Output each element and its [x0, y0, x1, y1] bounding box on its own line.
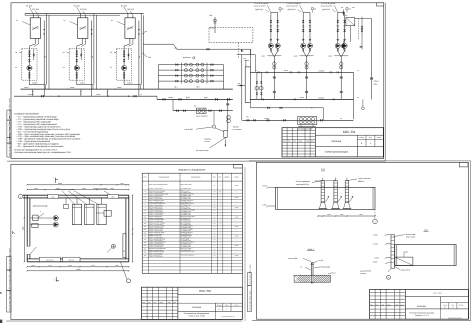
- svg-text:Стадия: Стадия: [217, 305, 222, 307]
- svg-text:Т1: Т1: [43, 56, 46, 58]
- svg-text:см.ТМ: см.ТМ: [235, 216, 238, 218]
- svg-text:Ру=1,6МПа t=95С: Ру=1,6МПа t=95С: [181, 240, 191, 242]
- svg-text:Ø89х3,5: Ø89х3,5: [358, 180, 364, 183]
- svg-text:Ру=1,6МПа t=95С: Ру=1,6МПа t=95С: [181, 217, 191, 219]
- svg-text:в компл. с автоматикой: в компл. с автоматикой: [149, 227, 163, 229]
- svg-text:Листов: Листов: [377, 137, 382, 139]
- svg-text:Т1: Т1: [91, 56, 94, 58]
- svg-text:Ду40: Ду40: [294, 56, 297, 58]
- svg-text:ГОСТ 10704-91 76x3,5: ГОСТ 10704-91 76x3,5: [181, 251, 195, 253]
- svg-text:1: 1: [54, 278, 55, 281]
- svg-text:Ру=1,6МПа t=95С: Ру=1,6МПа t=95С: [181, 195, 191, 197]
- svg-text:в компл. с автоматикой: в компл. с автоматикой: [149, 205, 163, 207]
- svg-text:Ведомость оборудования: Ведомость оборудования: [179, 168, 207, 171]
- svg-text:Т1: Т1: [138, 56, 141, 58]
- svg-text:№док: №док: [387, 304, 391, 306]
- svg-text:К1: К1: [111, 19, 113, 22]
- svg-text:Лист: Лист: [369, 137, 372, 139]
- svg-text:ГВ-1: ГВ-1: [174, 86, 178, 89]
- svg-text:см.ТМ: см.ТМ: [235, 185, 238, 187]
- svg-text:см.ТМ: см.ТМ: [235, 255, 238, 257]
- svg-text:см.ТМ: см.ТМ: [235, 207, 238, 209]
- svg-text:Листов: Листов: [235, 305, 239, 307]
- svg-text:3: 3: [452, 306, 453, 309]
- svg-text:в компл. с автоматикой: в компл. с автоматикой: [149, 224, 163, 226]
- svg-text:в компл. с автоматикой: в компл. с автоматикой: [149, 246, 163, 248]
- svg-text:-0,500: -0,500: [262, 203, 267, 206]
- svg-text:Ру=1,6МПа t=95С: Ру=1,6МПа t=95С: [181, 233, 191, 235]
- svg-text:Ру=1,6МПа t=95С: Ру=1,6МПа t=95С: [181, 208, 191, 210]
- svg-text:Копировал Формат А2: Копировал Формат А2: [222, 316, 235, 318]
- svg-text:Т97 Ø25: Т97 Ø25: [80, 8, 87, 11]
- svg-text:Колонка: Колонка: [332, 140, 342, 143]
- svg-text:в компл. с автоматикой: в компл. с автоматикой: [149, 249, 163, 251]
- svg-text:К1: К1: [15, 66, 17, 69]
- svg-text:Условные обозначения:: Условные обозначения:: [14, 113, 39, 116]
- svg-text:1: 1: [53, 176, 54, 179]
- svg-text:Колонка: Колонка: [417, 305, 426, 308]
- svg-text:К1: К1: [64, 19, 66, 22]
- svg-text:Т97 Ø25: Т97 Ø25: [127, 8, 134, 11]
- svg-text:Труба стальная: Труба стальная: [358, 177, 370, 180]
- svg-text:см.ТМ: см.ТМ: [235, 236, 238, 238]
- svg-text:Лист: Лист: [381, 304, 384, 306]
- svg-text:Н1: Н1: [63, 51, 65, 54]
- svg-text:Изм: Изм: [142, 302, 145, 304]
- svg-text:в компл. с автоматикой: в компл. с автоматикой: [149, 253, 163, 255]
- svg-text:—К1— дренажный трубопровод на: —К1— дренажный трубопровод на канализаци…: [16, 145, 64, 148]
- svg-text:Изм: Изм: [370, 304, 373, 306]
- svg-text:Ру=1,6МПа t=95С: Ру=1,6МПа t=95С: [181, 188, 191, 190]
- svg-text:Колонка: Колонка: [192, 306, 201, 309]
- svg-text:Т97 Ø25: Т97 Ø25: [32, 8, 39, 11]
- svg-text:2210: 2210: [91, 265, 94, 267]
- svg-text:Ру=1,6МПа t=95С: Ру=1,6МПа t=95С: [181, 192, 191, 194]
- svg-text:1: 1: [375, 220, 376, 223]
- svg-text:Ру=1,6МПа t=95С: Ру=1,6МПа t=95С: [181, 249, 191, 251]
- svg-text:Подп: Подп: [168, 302, 172, 304]
- svg-text:План на отм. 0,000: План на отм. 0,000: [189, 315, 205, 318]
- svg-text:Кол: Кол: [148, 302, 151, 304]
- svg-text:хомутовая ОПХ1: хомутовая ОПХ1: [296, 183, 309, 186]
- svg-text:ГВ-2: ГВ-2: [196, 86, 200, 89]
- svg-text:от скважины: от скважины: [233, 129, 243, 131]
- svg-text:Ру=1,6МПа t=95С: Ру=1,6МПа t=95С: [181, 198, 191, 200]
- svg-text:+2,500: +2,500: [262, 185, 267, 188]
- svg-text:1: 1: [226, 308, 227, 311]
- svg-text:К1: К1: [16, 19, 18, 22]
- svg-text:в компл. с автоматикой: в компл. с автоматикой: [149, 237, 163, 239]
- svg-text:см.ТМ: см.ТМ: [235, 197, 238, 199]
- svg-text:в компл. с автоматикой: в компл. с автоматикой: [149, 201, 163, 203]
- svg-text:Дата: Дата: [173, 302, 176, 304]
- svg-text:в компл. с автоматикой: в компл. с автоматикой: [149, 214, 163, 216]
- svg-text:Узел 1: Узел 1: [308, 248, 315, 251]
- svg-text:Условные обозначения арматуры: Условные обозначения арматуры см. специф…: [14, 151, 71, 154]
- svg-text:1845: 1845: [115, 265, 118, 267]
- svg-text:в компл. с автоматикой: в компл. с автоматикой: [149, 188, 163, 190]
- svg-text:Ру=1,6МПа t=95С: Ру=1,6МПа t=95С: [181, 201, 191, 203]
- svg-text:КВр-0,8-95 Гкал/ч: КВр-0,8-95 Гкал/ч: [181, 184, 192, 186]
- svg-text:Кол: Кол: [376, 304, 379, 306]
- svg-text:Тепломеханические решения.: Тепломеханические решения.: [409, 311, 435, 314]
- svg-text:в компл. с автоматикой: в компл. с автоматикой: [149, 192, 163, 194]
- svg-text:ГОСТ 3262-75 25x2,8: ГОСТ 3262-75 25x2,8: [181, 254, 194, 256]
- svg-text:КОС-ТМ: КОС-ТМ: [199, 289, 211, 293]
- svg-text:В1 Ø25: В1 Ø25: [74, 4, 80, 7]
- svg-text:в компл. с автоматикой: в компл. с автоматикой: [149, 256, 163, 258]
- svg-text:ворота 3x3: ворота 3x3: [46, 259, 53, 261]
- svg-text:Ру=1,6МПа t=95С: Ру=1,6МПа t=95С: [181, 221, 191, 223]
- svg-text:Копировал Формат А1: Копировал Формат А1: [448, 317, 462, 319]
- svg-text:Листов: Листов: [459, 305, 464, 307]
- svg-text:в компл. с автоматикой: в компл. с автоматикой: [149, 221, 163, 223]
- svg-text:Н1: Н1: [15, 51, 17, 54]
- svg-text:в компл. с автоматикой: в компл. с автоматикой: [149, 233, 163, 235]
- svg-text:насос подпитки: насос подпитки: [196, 116, 208, 118]
- svg-text:Ру=1,6МПа t=95С: Ру=1,6МПа t=95С: [181, 246, 191, 248]
- svg-text:Схема трубопроводов: Схема трубопроводов: [325, 151, 349, 154]
- svg-text:1620: 1620: [68, 265, 71, 267]
- svg-text:К1: К1: [110, 66, 112, 69]
- svg-text:Ру=1,6МПа t=95С: Ру=1,6МПа t=95С: [181, 243, 191, 245]
- svg-text:В1 Ø25: В1 Ø25: [26, 4, 32, 7]
- svg-text:КОС-ТМ: КОС-ТМ: [343, 130, 356, 134]
- svg-text:в компл. с автоматикой: в компл. с автоматикой: [149, 198, 163, 200]
- svg-text:Разрезы 1-1, 2-2: Разрезы 1-1, 2-2: [415, 314, 429, 317]
- svg-text:Ду40: Ду40: [262, 56, 265, 58]
- svg-text:1020: 1020: [31, 265, 34, 267]
- svg-text:№док: №док: [160, 302, 164, 304]
- svg-text:в компл. с автоматикой: в компл. с автоматикой: [149, 230, 163, 232]
- svg-text:см.ТМ: см.ТМ: [235, 226, 238, 228]
- svg-text:Ру=1,6МПа t=95С: Ру=1,6МПа t=95С: [181, 237, 191, 239]
- svg-text:1740: 1740: [48, 265, 51, 267]
- svg-text:Ру=1,6МПа t=95С: Ру=1,6МПа t=95С: [181, 230, 191, 232]
- svg-text:по месту: по месту: [360, 273, 367, 275]
- svg-text:в компл. с автоматикой: в компл. с автоматикой: [149, 243, 163, 245]
- svg-text:Ру=1,6МПа t=95С: Ру=1,6МПа t=95С: [181, 214, 191, 216]
- svg-text:подача: подача: [374, 81, 379, 83]
- svg-text:Дата: Дата: [401, 304, 404, 306]
- svg-text:Подп: Подп: [395, 304, 398, 306]
- svg-text:гребенка: гребенка: [183, 56, 190, 59]
- svg-text:в компл. с автоматикой: в компл. с автоматикой: [149, 240, 163, 242]
- svg-text:Ру=1,6МПа t=95С: Ру=1,6МПа t=95С: [181, 211, 191, 213]
- svg-text:Опора подвижная: Опора подвижная: [296, 180, 310, 183]
- svg-text:В1 Ø25: В1 Ø25: [121, 4, 127, 7]
- svg-text:Н1: Н1: [110, 51, 112, 54]
- svg-text:в компл. с автоматикой: в компл. с автоматикой: [149, 211, 163, 213]
- svg-text:Ру=1,6МПа t=95С: Ру=1,6МПа t=95С: [181, 227, 191, 229]
- svg-text:Ру=1,6МПа t=95С: Ру=1,6МПа t=95С: [181, 205, 191, 207]
- svg-text:ДН 21-9: ДН 21-9: [69, 259, 74, 261]
- svg-text:в компл. с автоматикой: в компл. с автоматикой: [149, 195, 163, 197]
- svg-text:КОС-ТМ: КОС-ТМ: [433, 292, 441, 295]
- svg-text:Лист: Лист: [154, 302, 157, 304]
- svg-text:К1: К1: [63, 66, 65, 69]
- svg-text:Ду40: Ду40: [329, 56, 332, 58]
- svg-text:в компл. с автоматикой: в компл. с автоматикой: [149, 208, 163, 210]
- svg-text:Лист: Лист: [226, 305, 229, 307]
- svg-text:в компл. с автоматикой: в компл. с автоматикой: [149, 217, 163, 219]
- svg-text:см.ТМ: см.ТМ: [235, 245, 238, 247]
- svg-text:Ру=1,6МПа t=95С: Ру=1,6МПа t=95С: [181, 224, 191, 226]
- svg-text:Стадия: Стадия: [359, 137, 364, 139]
- svg-text:Расположение оборудования.: Расположение оборудования.: [184, 312, 210, 315]
